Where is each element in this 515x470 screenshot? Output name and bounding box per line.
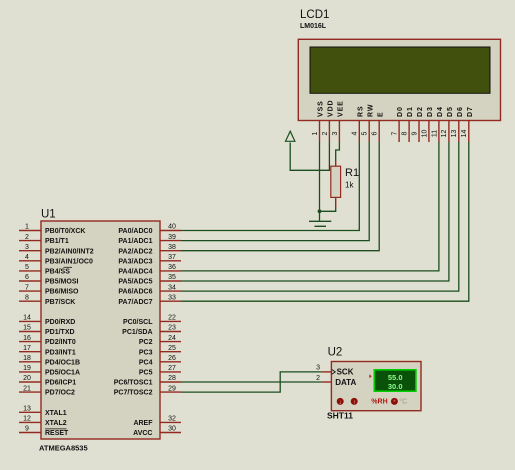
svg-text:12: 12: [23, 416, 31, 423]
svg-text:34: 34: [168, 284, 176, 291]
wire PA2 to LCD E: [181, 142, 379, 251]
ground symbol: [309, 221, 331, 226]
svg-text:PA3/ADC3: PA3/ADC3: [118, 258, 152, 265]
svg-text:30: 30: [168, 426, 176, 433]
LCD pin 8 D1: [401, 106, 414, 142]
resistor R1 body: [331, 166, 341, 197]
U1 pin 19 PD5/OC1A: [19, 365, 80, 376]
U1 pin 25 PC3: [139, 345, 181, 356]
svg-text:ATMEGA8535: ATMEGA8535: [39, 444, 88, 453]
svg-text:PB6/MISO: PB6/MISO: [45, 289, 79, 296]
LCD pin 7 D0: [392, 106, 405, 142]
svg-text:D0: D0: [397, 106, 404, 117]
svg-text:PB5/MOSI: PB5/MOSI: [45, 279, 79, 286]
svg-text:32: 32: [168, 416, 176, 423]
svg-text:PC2: PC2: [139, 339, 153, 346]
svg-text:PB1/T1: PB1/T1: [45, 238, 69, 245]
svg-text:D5: D5: [447, 106, 454, 117]
svg-text:↑: ↑: [353, 400, 356, 406]
svg-text:27: 27: [168, 365, 176, 372]
U1 pin 16 PD2/INT0: [19, 335, 76, 346]
LCD pin 1 VSS: [312, 100, 325, 142]
svg-text:14: 14: [461, 130, 468, 138]
wire PC6 to U2 DATA: [181, 381, 321, 383]
wire PC7 to U2 SCK: [181, 372, 321, 392]
svg-text:5: 5: [25, 264, 29, 271]
LCD pin 4 RS: [352, 105, 365, 142]
svg-text:28: 28: [168, 375, 176, 382]
U2 degC label: [399, 398, 407, 406]
svg-text:RS: RS: [357, 105, 364, 117]
U1 pin 7 PB6/MISO: [19, 284, 79, 295]
svg-text:↓: ↓: [339, 400, 342, 406]
U1 pin 12 XTAL2: [19, 416, 67, 427]
svg-text:14: 14: [23, 315, 31, 322]
svg-text:26: 26: [168, 355, 176, 362]
svg-text:PC4: PC4: [139, 359, 153, 366]
svg-text:7: 7: [25, 284, 29, 291]
svg-text:PC5: PC5: [139, 370, 153, 377]
svg-text:1k: 1k: [345, 181, 354, 190]
U1 pin 3 PB2/AIN0/INT2: [19, 244, 94, 255]
svg-text:VEE: VEE: [338, 100, 345, 117]
svg-text:10: 10: [421, 130, 428, 138]
wire PA4 to LCD D4: [181, 142, 439, 271]
U2 pin 3 SCK: [316, 365, 354, 377]
svg-text:9: 9: [411, 131, 418, 135]
svg-text:PB4/SS: PB4/SS: [45, 269, 70, 276]
svg-text:2: 2: [322, 131, 329, 135]
U1 pin 32 AREF: [133, 416, 181, 427]
U1 pin 28 PC6/TOSC1: [114, 375, 181, 386]
U1 pin 13 XTAL1: [19, 406, 67, 417]
U1 pin 24 PC2: [139, 335, 181, 346]
svg-text:25: 25: [168, 345, 176, 352]
LCD pin 5 RW: [362, 104, 375, 142]
U1 pin 4 PB3/AIN1/OC0: [19, 254, 93, 265]
svg-text:13: 13: [451, 130, 458, 138]
resistor R1 bottom pin: [335, 197, 337, 207]
svg-text:PA6/ADC6: PA6/ADC6: [118, 289, 152, 296]
svg-text:°C: °C: [399, 398, 407, 406]
svg-text:4: 4: [25, 254, 29, 261]
svg-text:VDD: VDD: [328, 100, 335, 117]
IC U1 label: [41, 209, 56, 221]
resistor R1 labels: [345, 167, 359, 190]
svg-text:30.0: 30.0: [388, 382, 403, 391]
U1 pin 5 PB4/SS: [19, 264, 72, 275]
svg-text:11: 11: [431, 130, 438, 137]
U1 pin 22 PC0/SCL: [123, 315, 181, 326]
svg-text:PD7/OC2: PD7/OC2: [45, 390, 75, 397]
U2 star indicator: [391, 398, 398, 406]
svg-text:2: 2: [316, 375, 320, 382]
svg-text:VSS: VSS: [318, 100, 325, 117]
svg-text:9: 9: [25, 426, 29, 433]
LCD pin 11 D4: [431, 106, 444, 142]
U2 LCD display: [374, 370, 416, 391]
svg-text:17: 17: [23, 345, 31, 352]
svg-text:PB7/SCK: PB7/SCK: [45, 299, 75, 306]
LCD LCD1 body: [298, 39, 500, 120]
svg-text:6: 6: [372, 131, 379, 135]
svg-text:33: 33: [168, 294, 176, 301]
svg-text:20: 20: [23, 375, 31, 382]
svg-text:AVCC: AVCC: [133, 430, 152, 437]
svg-text:D1: D1: [407, 106, 414, 117]
U1 pin 29 PC7/TOSC2: [114, 385, 181, 396]
svg-text:SCK: SCK: [337, 368, 354, 377]
wire LCD VSS to ground: [319, 142, 321, 221]
U2 display marker: [369, 374, 371, 378]
U1 pin 23 PC1/SDA: [122, 325, 181, 336]
U1 pin 30 AVCC: [133, 426, 181, 437]
LCD pin 13 D6: [451, 106, 464, 142]
svg-text:4: 4: [352, 131, 359, 135]
wire PA7 to LCD D7: [181, 142, 469, 301]
svg-text:PB3/AIN1/OC0: PB3/AIN1/OC0: [45, 258, 93, 265]
svg-text:24: 24: [168, 335, 176, 342]
svg-text:PD1/TXD: PD1/TXD: [45, 329, 75, 336]
svg-text:E: E: [377, 111, 384, 117]
U2 %RH label: [371, 399, 387, 406]
LCD pin 2 VDD: [322, 100, 335, 142]
svg-text:R1: R1: [345, 167, 359, 179]
U1 pin 33 PA7/ADC7: [118, 294, 181, 305]
svg-text:8: 8: [401, 131, 408, 135]
svg-text:%RH: %RH: [371, 399, 387, 406]
svg-text:16: 16: [23, 335, 31, 342]
svg-text:38: 38: [168, 244, 176, 251]
U1 pin 26 PC4: [139, 355, 181, 366]
svg-text:PC3: PC3: [139, 349, 153, 356]
wire PA6 to LCD D6: [181, 142, 459, 291]
sensor U2 SHT11 body: [331, 362, 421, 411]
svg-text:PA7/ADC7: PA7/ADC7: [118, 299, 152, 306]
svg-text:XTAL1: XTAL1: [45, 410, 67, 417]
sensor U2 part name SHT11: [327, 411, 353, 421]
svg-text:12: 12: [441, 130, 448, 138]
IC U1 part name ATMEGA8535: [39, 444, 88, 453]
svg-text:LCD1: LCD1: [300, 9, 329, 21]
wire PA1 to LCD RW: [181, 142, 369, 241]
svg-text:D2: D2: [417, 106, 424, 117]
U1 pin 39 PA1/ADC1: [118, 234, 181, 245]
svg-text:36: 36: [168, 264, 176, 271]
svg-text:PC6/TOSC1: PC6/TOSC1: [114, 380, 153, 387]
svg-text:1: 1: [312, 131, 319, 135]
svg-text:SHT11: SHT11: [327, 411, 353, 421]
svg-text:19: 19: [23, 365, 31, 372]
LCD pin 14 D7: [461, 106, 474, 142]
U1 pin 18 PD4/OC1B: [19, 355, 80, 366]
power symbol VDD: [286, 131, 295, 141]
svg-text:PD2/INT0: PD2/INT0: [45, 339, 76, 346]
svg-text:18: 18: [23, 355, 31, 362]
svg-text:PD6/ICP1: PD6/ICP1: [45, 380, 76, 387]
U1 pin 40 PA0/ADC0: [118, 224, 181, 235]
wire PA5 to LCD D5: [181, 142, 449, 281]
LCD pin 10 D3: [421, 106, 434, 142]
svg-text:13: 13: [23, 406, 31, 413]
LCD pin 9 D2: [411, 106, 424, 142]
svg-text:PD4/OC1B: PD4/OC1B: [45, 359, 80, 366]
wire LCD VDD to power: [290, 142, 329, 170]
svg-text:PB2/AIN0/INT2: PB2/AIN0/INT2: [45, 248, 94, 255]
svg-text:PA5/ADC5: PA5/ADC5: [118, 279, 152, 286]
svg-text:15: 15: [23, 325, 31, 332]
U1 pin 20 PD6/ICP1: [19, 375, 76, 386]
svg-text:D6: D6: [457, 106, 464, 117]
svg-text:PA1/ADC1: PA1/ADC1: [118, 238, 152, 245]
svg-text:PA2/ADC2: PA2/ADC2: [118, 248, 152, 255]
svg-text:8: 8: [25, 294, 29, 301]
U1 pin 27 PC5: [139, 365, 181, 376]
U1 pin 1 PB0/T0/XCK: [19, 224, 85, 235]
svg-text:RW: RW: [367, 104, 374, 117]
U1 pin 21 PD7/OC2: [19, 385, 75, 396]
svg-text:29: 29: [168, 385, 176, 392]
resistor R1 top pin: [335, 161, 337, 167]
svg-text:PC7/TOSC2: PC7/TOSC2: [114, 390, 153, 397]
U1 pin 35 PA5/ADC5: [118, 274, 181, 285]
U1 pin 38 PA2/ADC2: [118, 244, 181, 255]
svg-text:3: 3: [332, 131, 339, 135]
U1 pin 9 RESET: [19, 426, 69, 437]
U1 pin 34 PA6/ADC6: [118, 284, 181, 295]
svg-text:U2: U2: [328, 347, 343, 359]
svg-text:21: 21: [23, 385, 31, 392]
U1 pin 14 PD0/RXD: [19, 315, 75, 326]
svg-text:PC0/SCL: PC0/SCL: [123, 319, 153, 326]
svg-text:35: 35: [168, 274, 176, 281]
LCD screen: [310, 47, 490, 93]
svg-text:LM016L: LM016L: [300, 23, 327, 30]
U1 pin 37 PA3/ADC3: [118, 254, 181, 265]
U2 button up: [351, 398, 358, 406]
LCD LCD1 label: [300, 9, 329, 30]
svg-text:PA4/ADC4: PA4/ADC4: [118, 269, 152, 276]
IC U1 ATMEGA8535 body: [41, 221, 160, 439]
svg-text:PC1/SDA: PC1/SDA: [122, 329, 152, 336]
svg-text:RESET: RESET: [45, 430, 69, 437]
svg-text:2: 2: [25, 234, 29, 241]
svg-text:D4: D4: [437, 106, 444, 117]
svg-text:7: 7: [392, 131, 399, 135]
svg-text:XTAL2: XTAL2: [45, 420, 67, 427]
svg-text:DATA: DATA: [335, 378, 356, 387]
svg-text:6: 6: [25, 274, 29, 281]
U1 pin 6 PB5/MOSI: [19, 274, 79, 285]
svg-text:22: 22: [168, 315, 176, 322]
svg-text:PA0/ADC0: PA0/ADC0: [118, 228, 152, 235]
LCD pin 6 E: [372, 111, 385, 142]
U1 pin 8 PB7/SCK: [19, 294, 75, 305]
svg-text:PD3/INT1: PD3/INT1: [45, 349, 76, 356]
LCD pin 3 VEE: [332, 100, 345, 142]
svg-text:PD5/OC1A: PD5/OC1A: [45, 370, 80, 377]
svg-text:39: 39: [168, 234, 176, 241]
junction node (VSS/R1/ground): [318, 209, 322, 213]
svg-text:5: 5: [362, 131, 369, 135]
wire R1 bottom to ground junction: [320, 207, 336, 211]
U2 pin 2 DATA: [316, 375, 356, 387]
svg-text:3: 3: [25, 244, 29, 251]
U1 pin 15 PD1/TXD: [19, 325, 75, 336]
LCD pin 12 D5: [441, 106, 454, 142]
wire LCD VEE to R1 top: [336, 142, 340, 161]
svg-text:D7: D7: [467, 106, 474, 117]
sensor U2 label: [328, 347, 343, 359]
svg-text:37: 37: [168, 254, 176, 261]
svg-text:3: 3: [316, 365, 320, 372]
svg-text:PD0/RXD: PD0/RXD: [45, 319, 75, 326]
svg-text:PB0/T0/XCK: PB0/T0/XCK: [45, 228, 85, 235]
svg-text:U1: U1: [41, 209, 56, 221]
svg-text:23: 23: [168, 325, 176, 332]
wire PA0 to LCD RS: [181, 142, 359, 231]
U1 pin 36 PA4/ADC4: [118, 264, 181, 275]
U1 pin 17 PD3/INT1: [19, 345, 76, 356]
svg-text:1: 1: [25, 224, 29, 231]
svg-text:AREF: AREF: [133, 420, 153, 427]
svg-text:D3: D3: [427, 106, 434, 117]
U1 pin 2 PB1/T1: [19, 234, 69, 245]
U2 button down: [337, 398, 344, 406]
svg-text:40: 40: [168, 224, 176, 231]
